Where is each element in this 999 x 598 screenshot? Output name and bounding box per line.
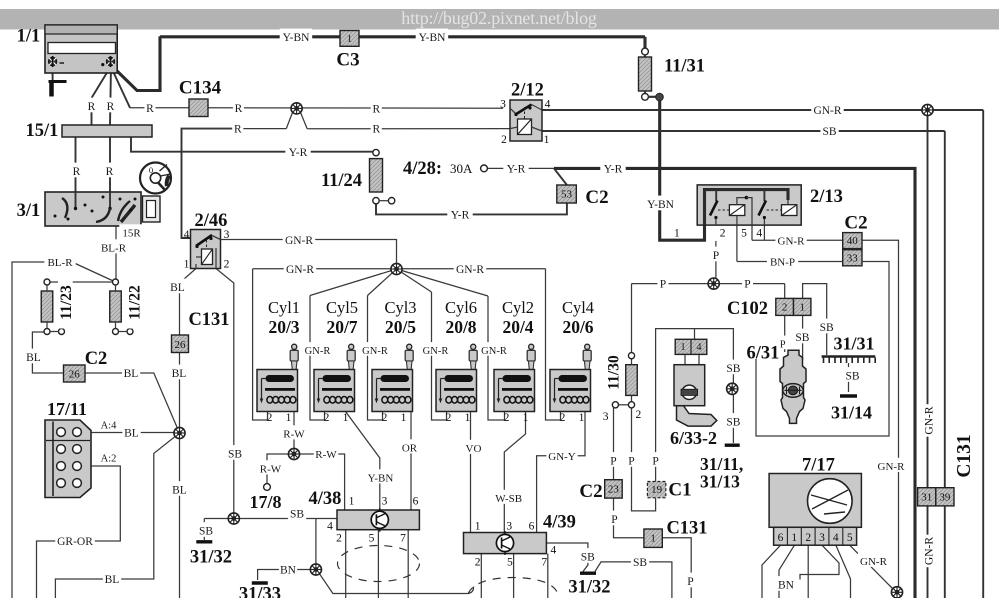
- svg-text:BL-R: BL-R: [101, 243, 127, 255]
- svg-text:3: 3: [603, 411, 609, 423]
- svg-text:2: 2: [475, 557, 481, 569]
- svg-text:GN-R: GN-R: [860, 556, 888, 568]
- svg-text:Cyl5: Cyl5: [326, 298, 358, 317]
- svg-text:Y-BN: Y-BN: [283, 32, 311, 44]
- svg-text:C131: C131: [666, 519, 707, 539]
- svg-text:Cyl4: Cyl4: [562, 298, 594, 317]
- svg-text:4/39: 4/39: [543, 513, 576, 533]
- svg-text:Y-R: Y-R: [451, 210, 470, 222]
- svg-text:C2: C2: [85, 349, 108, 369]
- svg-text:4/38: 4/38: [309, 489, 342, 509]
- svg-text:26: 26: [69, 369, 81, 381]
- svg-text:R: R: [107, 101, 115, 113]
- svg-text:OR: OR: [402, 443, 418, 455]
- svg-text:BN: BN: [778, 580, 795, 592]
- svg-text:Cyl2: Cyl2: [502, 298, 534, 317]
- svg-text:VO: VO: [466, 443, 482, 455]
- svg-text:2/46: 2/46: [195, 211, 228, 231]
- svg-text:33: 33: [847, 253, 859, 265]
- svg-text:P: P: [687, 576, 693, 588]
- svg-text:6: 6: [778, 532, 784, 544]
- svg-text:P: P: [611, 514, 617, 526]
- svg-text:C3: C3: [336, 49, 359, 70]
- svg-text:R: R: [73, 166, 81, 178]
- svg-text:1: 1: [465, 412, 471, 424]
- svg-text:Cyl1: Cyl1: [268, 298, 300, 317]
- svg-text:GN-Y: GN-Y: [548, 451, 576, 463]
- svg-text:4: 4: [545, 99, 551, 111]
- svg-text:15R: 15R: [122, 228, 141, 240]
- svg-text:53: 53: [561, 189, 573, 201]
- svg-text:6: 6: [529, 521, 535, 533]
- svg-text:1: 1: [184, 259, 190, 271]
- svg-text:Y-BN: Y-BN: [419, 32, 447, 44]
- svg-text:Y-R: Y-R: [604, 164, 623, 176]
- svg-text:C102: C102: [727, 299, 768, 319]
- svg-text:30A: 30A: [450, 161, 473, 176]
- svg-text:39: 39: [939, 492, 951, 504]
- svg-text:1: 1: [791, 532, 797, 544]
- svg-text:C134: C134: [179, 77, 222, 98]
- svg-text:BL: BL: [124, 368, 139, 380]
- svg-text:3/1: 3/1: [17, 201, 41, 221]
- svg-text:3: 3: [224, 229, 230, 241]
- svg-text:23: 23: [608, 484, 620, 496]
- svg-text:1: 1: [799, 302, 805, 314]
- svg-text:GN-R: GN-R: [285, 235, 313, 247]
- svg-text:3: 3: [382, 496, 388, 508]
- svg-text:2: 2: [560, 412, 566, 424]
- svg-text:GN-R: GN-R: [923, 537, 935, 565]
- svg-text:7: 7: [541, 557, 547, 569]
- svg-text:1: 1: [650, 533, 656, 545]
- svg-text:SB: SB: [633, 557, 647, 569]
- svg-text:2: 2: [267, 412, 273, 424]
- svg-text:Y-BN: Y-BN: [368, 473, 394, 485]
- svg-text:2: 2: [324, 412, 330, 424]
- svg-text:1: 1: [674, 228, 680, 240]
- svg-text:P: P: [660, 279, 666, 291]
- svg-text:19: 19: [651, 484, 663, 496]
- svg-text:4/28:: 4/28:: [403, 159, 442, 179]
- svg-text:20/5: 20/5: [385, 317, 416, 337]
- svg-text:Y-BN: Y-BN: [647, 199, 675, 211]
- svg-text:P: P: [652, 456, 658, 468]
- svg-text:R: R: [234, 124, 242, 136]
- svg-text:1: 1: [401, 412, 407, 424]
- svg-text:20/3: 20/3: [268, 317, 299, 337]
- svg-text:1/1: 1/1: [17, 27, 41, 47]
- svg-text:W-SB: W-SB: [495, 493, 522, 505]
- svg-text:2/12: 2/12: [511, 81, 544, 101]
- svg-text:3: 3: [506, 521, 512, 533]
- svg-text:20/4: 20/4: [502, 317, 533, 337]
- svg-text:P: P: [610, 456, 616, 468]
- svg-text:GN-R: GN-R: [456, 264, 484, 276]
- svg-text:SB: SB: [726, 417, 740, 429]
- svg-text:11/22: 11/22: [127, 285, 144, 320]
- svg-text:6: 6: [413, 496, 419, 508]
- svg-text:2/13: 2/13: [810, 187, 843, 207]
- svg-text:C131: C131: [188, 310, 229, 330]
- svg-text:C1: C1: [668, 479, 691, 500]
- svg-text:1: 1: [349, 496, 355, 508]
- svg-text:3: 3: [819, 532, 825, 544]
- svg-text:2: 2: [805, 532, 811, 544]
- svg-text:11/24: 11/24: [321, 171, 362, 191]
- svg-text:0: 0: [149, 165, 153, 175]
- svg-text:1: 1: [544, 134, 550, 146]
- svg-text:1: 1: [579, 412, 585, 424]
- svg-text:BL: BL: [172, 485, 187, 497]
- svg-text:3: 3: [500, 99, 506, 111]
- svg-text:5: 5: [741, 228, 747, 240]
- svg-text:Cyl3: Cyl3: [384, 298, 416, 317]
- svg-text:31/32: 31/32: [190, 548, 232, 568]
- svg-text:40: 40: [847, 235, 859, 247]
- svg-text:R: R: [372, 103, 380, 115]
- svg-text:4: 4: [756, 228, 762, 240]
- svg-text:SB: SB: [822, 126, 836, 138]
- svg-text:R-W: R-W: [315, 449, 337, 461]
- svg-text:2: 2: [501, 134, 507, 146]
- svg-text:P: P: [780, 339, 786, 350]
- svg-text:SB: SB: [228, 449, 242, 461]
- svg-text:11/31: 11/31: [664, 57, 705, 77]
- svg-text:2: 2: [224, 259, 230, 271]
- svg-text:R-W: R-W: [260, 464, 282, 476]
- svg-text:SB: SB: [820, 322, 834, 334]
- svg-text:31: 31: [921, 492, 932, 504]
- svg-text:P: P: [744, 279, 750, 291]
- svg-text:BL: BL: [105, 574, 120, 586]
- svg-text:26: 26: [175, 339, 187, 351]
- svg-text:R-W: R-W: [283, 429, 305, 441]
- svg-text:Cyl6: Cyl6: [445, 298, 477, 317]
- svg-text:6/33-2: 6/33-2: [670, 428, 717, 448]
- svg-text:2: 2: [720, 228, 726, 240]
- svg-text:4: 4: [833, 532, 839, 544]
- svg-text:4: 4: [697, 342, 702, 353]
- svg-text:GN-R: GN-R: [362, 346, 388, 357]
- svg-text:1: 1: [475, 521, 481, 533]
- svg-text:SB: SB: [199, 526, 213, 538]
- svg-text:6/31: 6/31: [747, 344, 780, 364]
- svg-text:20/7: 20/7: [326, 317, 357, 337]
- svg-text:17/8: 17/8: [249, 492, 281, 512]
- svg-text:1: 1: [286, 412, 292, 424]
- svg-text:GN-R: GN-R: [423, 346, 449, 357]
- svg-text:1: 1: [343, 412, 349, 424]
- svg-text:GN-R: GN-R: [813, 105, 841, 117]
- svg-text:P: P: [713, 250, 719, 262]
- svg-text:C131: C131: [954, 434, 975, 477]
- svg-text:2: 2: [504, 412, 510, 424]
- svg-text:C2: C2: [844, 212, 867, 233]
- svg-text:20/8: 20/8: [445, 317, 476, 337]
- svg-text:31/32: 31/32: [568, 578, 610, 598]
- svg-text:SB: SB: [581, 552, 595, 564]
- svg-text:SB: SB: [290, 509, 304, 521]
- svg-text:Y-R: Y-R: [289, 147, 308, 159]
- svg-text:4: 4: [184, 229, 190, 241]
- svg-text:BL: BL: [124, 428, 139, 440]
- svg-text:BL: BL: [26, 352, 41, 364]
- svg-text:1: 1: [523, 412, 529, 424]
- svg-text:GN-R: GN-R: [286, 264, 314, 276]
- svg-text:11/23: 11/23: [58, 285, 75, 320]
- svg-text:5: 5: [369, 533, 375, 545]
- svg-text:GN-R: GN-R: [481, 346, 507, 357]
- svg-text:7: 7: [400, 533, 406, 545]
- svg-text:5: 5: [507, 557, 513, 569]
- svg-text:A:4: A:4: [101, 420, 118, 431]
- svg-text:Y-R: Y-R: [507, 164, 526, 176]
- svg-text:BL: BL: [170, 282, 185, 294]
- svg-text:SB: SB: [845, 371, 859, 383]
- svg-text:2: 2: [636, 409, 642, 421]
- svg-text:2: 2: [336, 533, 342, 545]
- svg-text:SB: SB: [795, 332, 809, 344]
- svg-text:R: R: [235, 103, 243, 115]
- svg-text:GN-R: GN-R: [923, 406, 935, 434]
- svg-text:BN-P: BN-P: [770, 257, 795, 269]
- svg-text:2: 2: [782, 302, 788, 314]
- svg-text:R: R: [106, 166, 114, 178]
- svg-text:R: R: [146, 103, 154, 115]
- svg-text:SB: SB: [726, 363, 740, 375]
- svg-text:BL: BL: [172, 368, 187, 380]
- svg-text:4: 4: [327, 521, 333, 533]
- svg-text:R: R: [88, 101, 96, 113]
- svg-text:5: 5: [847, 532, 853, 544]
- svg-text:7/17: 7/17: [802, 456, 835, 476]
- svg-text:GR-OR: GR-OR: [57, 536, 93, 548]
- svg-text:P: P: [628, 456, 634, 468]
- svg-text:11/30: 11/30: [606, 355, 623, 390]
- svg-text:2: 2: [446, 412, 452, 424]
- svg-text:31/33: 31/33: [239, 585, 281, 598]
- svg-text:20/6: 20/6: [562, 317, 593, 337]
- svg-text:GN-R: GN-R: [778, 235, 806, 247]
- svg-text:BN: BN: [280, 565, 297, 577]
- svg-text:GN-R: GN-R: [305, 346, 331, 357]
- svg-text:R: R: [372, 124, 380, 136]
- svg-text:1: 1: [347, 34, 352, 45]
- svg-text:GN-R: GN-R: [878, 461, 906, 473]
- svg-text:http://bug02.pixnet.net/blog: http://bug02.pixnet.net/blog: [401, 8, 597, 28]
- svg-text:31/13: 31/13: [700, 472, 740, 492]
- svg-text:31/14: 31/14: [831, 403, 872, 423]
- svg-text:C2: C2: [585, 187, 608, 208]
- svg-text:1: 1: [681, 342, 686, 353]
- svg-text:2: 2: [382, 412, 388, 424]
- svg-text:C2: C2: [579, 481, 602, 502]
- svg-text:4: 4: [551, 544, 557, 556]
- svg-text:A:2: A:2: [101, 453, 117, 464]
- svg-text:31/31: 31/31: [833, 334, 874, 354]
- svg-text:15/1: 15/1: [26, 121, 59, 141]
- svg-text:BL-R: BL-R: [47, 257, 73, 269]
- svg-text:17/11: 17/11: [47, 399, 87, 419]
